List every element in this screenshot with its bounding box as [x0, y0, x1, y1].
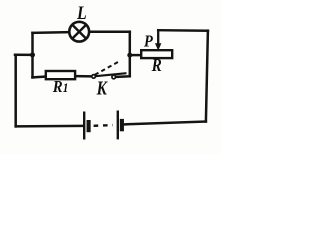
wire: R1 branch left segment [33, 75, 46, 78]
wire: R1 to switch segment [76, 75, 92, 78]
lamp L (circle with cross) [69, 22, 89, 42]
svg-text:R1: R1 [52, 78, 68, 96]
svg-text:R: R [151, 55, 162, 75]
rheostat slider arrow P [155, 30, 161, 50]
wire: left rail vertical [14, 55, 17, 127]
wire: bottom rail left segment [16, 125, 84, 128]
wire: lamp branch left segment [33, 31, 70, 34]
wire: rheostat branch horizontal [130, 54, 142, 57]
switch K [92, 61, 127, 78]
resistor R1 [46, 71, 75, 79]
wire: right rail vertical [206, 31, 208, 122]
rheostat R (slide resistor) [141, 50, 172, 58]
wire: bottom rail right segment [124, 122, 206, 125]
battery cell 2 plate long [117, 111, 119, 140]
wire: right mid vertical (lamp/switch join) [129, 32, 132, 76]
junction: right node dot [127, 53, 132, 58]
wire: left branch vertical (lamp/R1 split) [31, 33, 34, 78]
wire: switch to right rail segment [115, 75, 129, 78]
wire: lamp branch right segment [90, 30, 130, 33]
wire: slider top horizontal [158, 29, 208, 32]
battery cell 2 plate short thick [120, 119, 124, 131]
battery dashed continuation [94, 124, 113, 127]
battery cell 1 plate short thick [87, 120, 91, 132]
svg-text:L: L [76, 3, 87, 23]
wire: left connector horizontal [15, 54, 33, 57]
junction: left node dot [30, 52, 35, 57]
svg-text:K: K [96, 76, 109, 99]
svg-text:P: P [144, 33, 153, 51]
battery cell 1 plate long [83, 112, 85, 140]
